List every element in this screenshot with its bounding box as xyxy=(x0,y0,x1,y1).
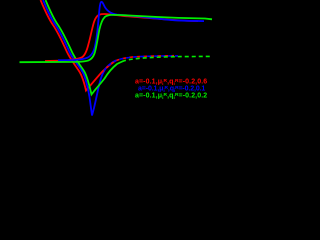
red/blue overlap alternation on joint right arm xyxy=(102,61,116,73)
red V dashed tail xyxy=(116,56,175,61)
blue V dashed tail xyxy=(116,56,178,61)
green step curve (solid, on top) xyxy=(20,15,213,62)
blue V curve (deep dip) xyxy=(43,0,116,116)
red V curve (descending branch + dip) xyxy=(41,0,116,91)
green V curve xyxy=(46,0,125,95)
green V dashed tail xyxy=(124,56,212,60)
blue step curve (solid, with overshoot spike) xyxy=(58,2,204,61)
red step curve (solid, mu red) xyxy=(45,14,198,61)
